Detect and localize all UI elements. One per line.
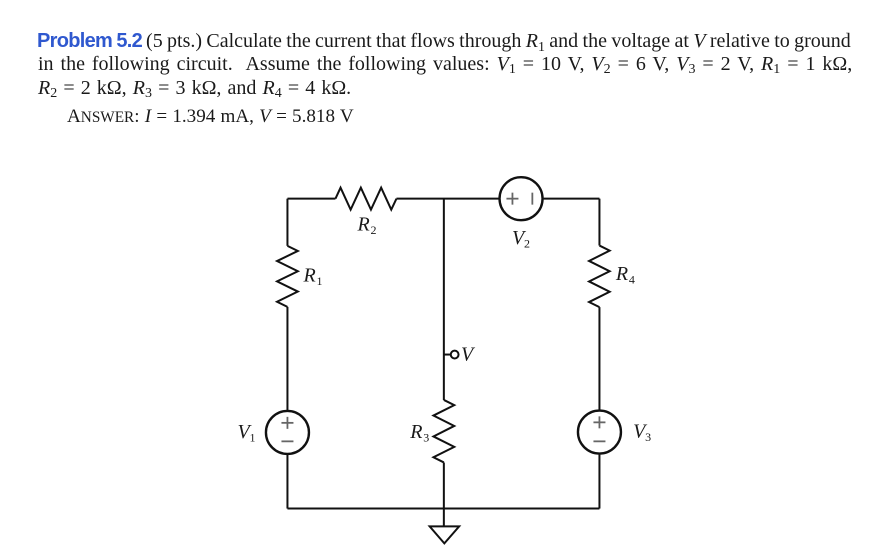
svg-text:R: R — [615, 263, 628, 285]
svg-text:3: 3 — [423, 431, 429, 445]
svg-text:1: 1 — [316, 274, 322, 288]
svg-text:2: 2 — [524, 237, 530, 251]
svg-text:R: R — [356, 213, 369, 235]
svg-text:R: R — [409, 421, 422, 443]
svg-text:3: 3 — [645, 430, 651, 444]
svg-text:V: V — [461, 343, 476, 365]
svg-text:4: 4 — [629, 273, 635, 287]
svg-text:1: 1 — [250, 430, 256, 444]
svg-text:R: R — [302, 265, 315, 287]
svg-text:2: 2 — [370, 223, 376, 237]
